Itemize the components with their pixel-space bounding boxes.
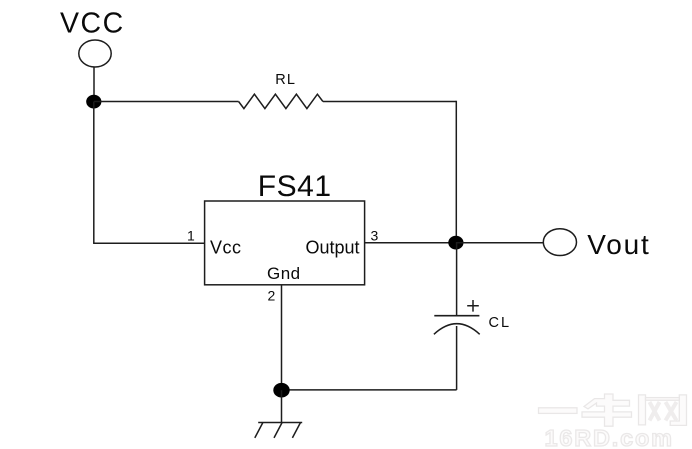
wire top-right corner down to node B	[455, 101, 457, 243]
node A junction dot	[86, 95, 101, 109]
wire pin 2 down to node C	[281, 285, 283, 390]
ground	[255, 423, 302, 438]
wire node C to ground	[281, 390, 283, 422]
svg-text:2: 2	[268, 288, 276, 304]
wire node A down left side	[93, 102, 95, 244]
op-amp U1 FS41 body	[205, 201, 365, 285]
svg-text:Gnd: Gnd	[267, 264, 301, 283]
capacitor CL polarity plus sign	[467, 300, 479, 312]
wire left side to pin 1	[93, 242, 205, 244]
wire pin 3 to node B	[365, 242, 456, 244]
svg-text:Vout: Vout	[587, 229, 650, 260]
svg-text:RL: RL	[275, 72, 296, 88]
node C junction dot	[273, 383, 289, 398]
wire node B to Vout terminal	[456, 242, 543, 244]
terminal Vout	[543, 229, 576, 256]
svg-text:Output: Output	[306, 238, 360, 258]
svg-text:CL: CL	[489, 315, 512, 331]
resistor RL	[239, 94, 323, 108]
watermark 网 inner X strokes	[650, 402, 677, 421]
wire capacitor CL to bottom rail	[456, 326, 458, 390]
capacitor CL top plate	[434, 315, 479, 317]
wire node A to resistor RL	[94, 101, 239, 103]
wire VCC terminal to node A	[93, 67, 95, 102]
svg-text:VCC: VCC	[60, 8, 125, 40]
wire node B down to capacitor CL	[456, 243, 458, 316]
svg-text:3: 3	[371, 228, 379, 244]
svg-text:1: 1	[187, 228, 195, 244]
capacitor CL curved bottom plate	[434, 324, 480, 335]
wire bottom rail to node C	[282, 389, 457, 391]
terminal VCC	[79, 40, 111, 67]
svg-text:FS41: FS41	[258, 170, 332, 203]
wire resistor RL to top-right corner	[323, 101, 456, 103]
svg-text:16RD.com: 16RD.com	[545, 425, 674, 449]
watermark 一牛网 logo	[539, 394, 687, 426]
node B junction dot	[448, 236, 463, 250]
svg-text:Vcc: Vcc	[210, 238, 242, 258]
